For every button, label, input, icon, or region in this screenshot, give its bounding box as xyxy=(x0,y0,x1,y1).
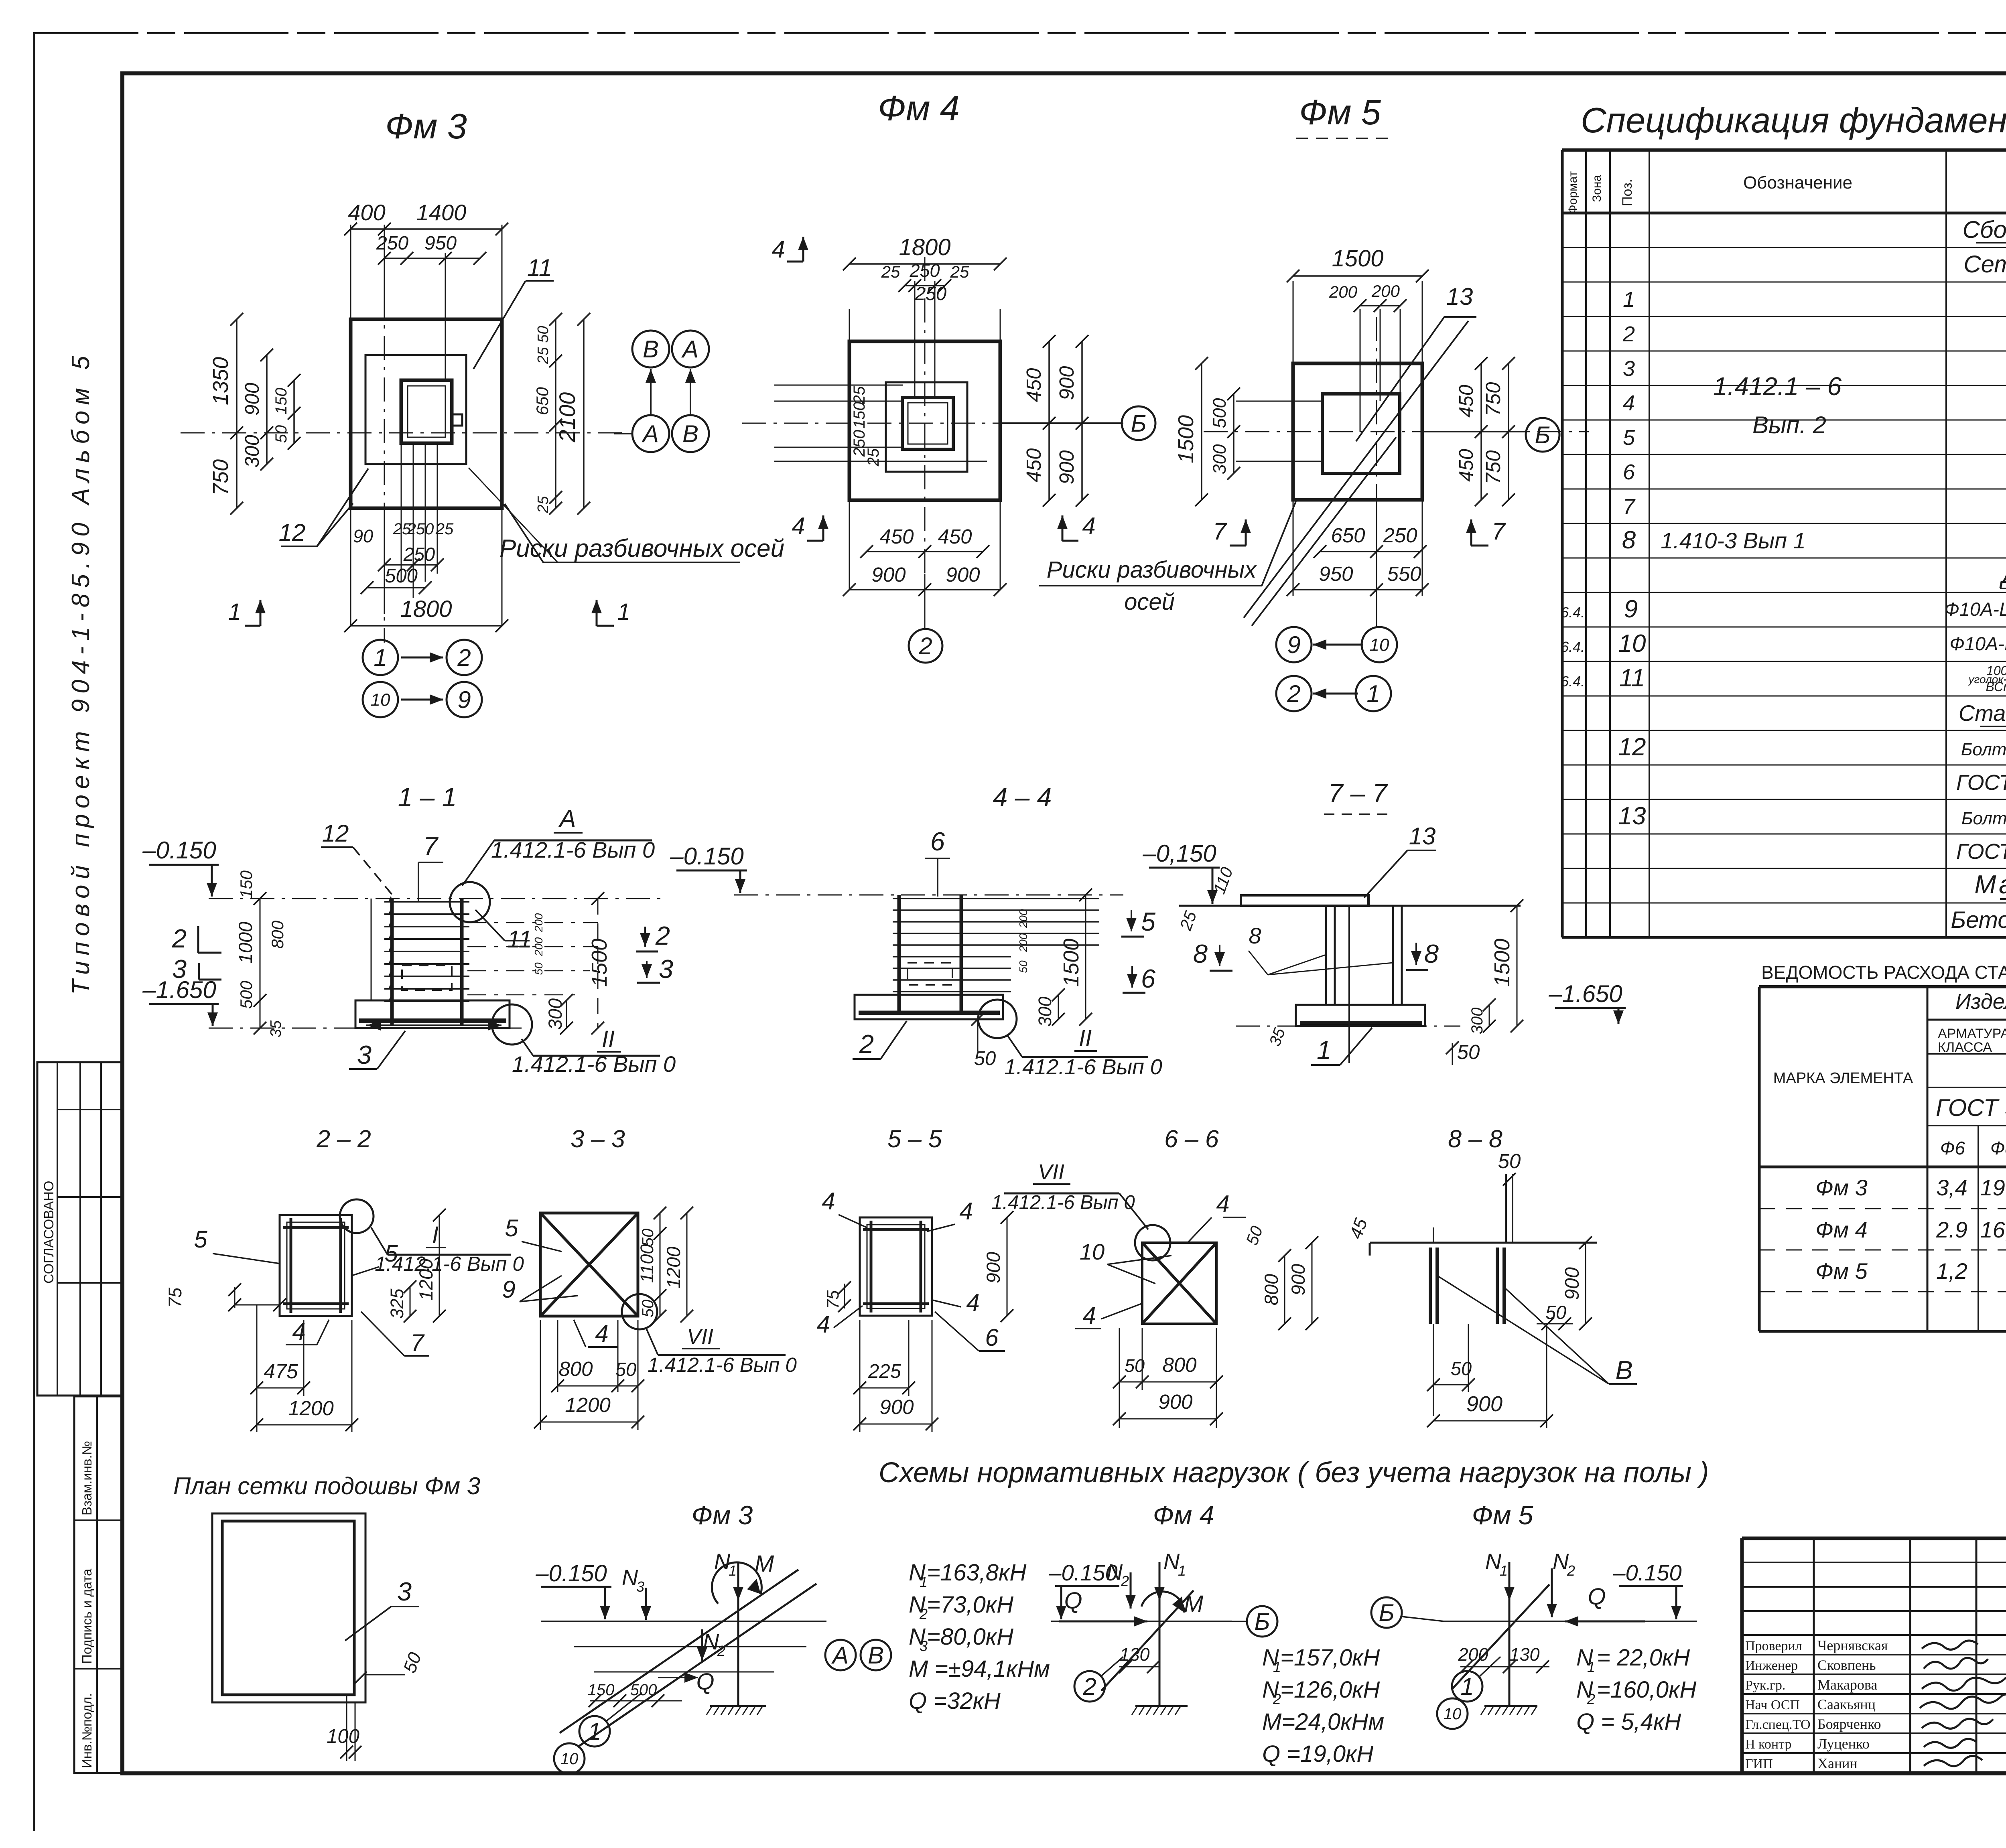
svg-text:2: 2 xyxy=(1121,1573,1129,1589)
Fm5 top dims 200 200 xyxy=(1360,305,1400,306)
svg-text:1500: 1500 xyxy=(1332,245,1383,272)
Fm4 pedestal outline xyxy=(886,382,967,472)
svg-text:Q =19,0кН: Q =19,0кН xyxy=(1262,1741,1373,1767)
section 4-4 dashed anchor box xyxy=(908,963,952,985)
svg-text:50: 50 xyxy=(1498,1150,1521,1172)
svg-text:1: 1 xyxy=(588,1718,601,1745)
svg-text:650: 650 xyxy=(1331,524,1365,547)
scheme Fm5 ground line xyxy=(1444,1621,1697,1622)
svg-text:1: 1 xyxy=(228,599,241,625)
svg-text:8: 8 xyxy=(1193,939,1208,968)
Fm5 right dims 750 750 xyxy=(1508,363,1509,500)
svg-text:3 – 3: 3 – 3 xyxy=(571,1125,625,1152)
svg-text:200: 200 xyxy=(1017,933,1029,952)
svg-text:4: 4 xyxy=(1216,1191,1229,1217)
section 8-8 top line xyxy=(1370,1242,1597,1244)
svg-text:300: 300 xyxy=(1209,444,1230,474)
svg-text:Схемы нормативных нагрузо: Схемы нормативных нагрузок ( без учета н… xyxy=(879,1457,1709,1489)
section 1-1 footing xyxy=(355,1000,510,1028)
svg-text:50: 50 xyxy=(1017,960,1029,973)
svg-text:В: В xyxy=(643,336,659,363)
title block signatures squiggles xyxy=(1922,1641,1978,1649)
scheme Fm5 vertical axis and support xyxy=(1509,1564,1511,1705)
svg-text:1: 1 xyxy=(729,1562,737,1579)
svg-text:7 – 7: 7 – 7 xyxy=(1328,778,1388,808)
svg-text:Взам.инв.№: Взам.инв.№ xyxy=(79,1441,94,1515)
svg-text:1: 1 xyxy=(1623,288,1635,312)
svg-text:1.410-3 Вып 1: 1.410-3 Вып 1 xyxy=(1661,528,1806,553)
svg-text:А: А xyxy=(642,420,659,447)
Fm3 section cut 1 right xyxy=(596,600,598,626)
section 3-3 square with cross xyxy=(540,1213,638,1316)
svg-text:1200: 1200 xyxy=(663,1247,684,1289)
svg-text:1.412.1-6 Вып 0: 1.412.1-6 Вып 0 xyxy=(648,1353,797,1376)
svg-text:N: N xyxy=(703,1629,719,1654)
Fm3 left dim 900 300 xyxy=(266,355,268,464)
Fm4 bottom dim 900 900 xyxy=(849,589,1000,590)
svg-text:–0.150: –0.150 xyxy=(535,1560,607,1586)
svg-text:3: 3 xyxy=(636,1578,644,1595)
mesh plan dims xyxy=(346,1695,347,1761)
svg-text:900: 900 xyxy=(1561,1267,1583,1300)
svg-text:Стандартные изделия: Стандартные изделия xyxy=(1959,700,2006,726)
scheme Fm4 axis circle B xyxy=(1247,1606,1277,1637)
section 8-8 top stub dim 50 xyxy=(1505,1174,1507,1243)
svg-text:6: 6 xyxy=(930,827,945,856)
svg-text:25: 25 xyxy=(535,496,552,513)
svg-text:11: 11 xyxy=(1619,664,1645,692)
svg-text:Риски разбивочных осей: Риски разбивочных осей xyxy=(499,535,784,562)
Fm4 section cut 4 marks xyxy=(822,515,824,541)
svg-text:2: 2 xyxy=(172,924,187,953)
svg-text:50: 50 xyxy=(1457,1041,1480,1063)
svg-text:ГОСТ 24379.1-80: ГОСТ 24379.1-80 xyxy=(1956,840,2006,864)
svg-text:900: 900 xyxy=(983,1252,1004,1283)
Fm5 mark circles 2-1 xyxy=(1276,676,1312,711)
svg-text:550: 550 xyxy=(1387,562,1421,585)
svg-text:2: 2 xyxy=(1082,1673,1096,1700)
svg-text:900: 900 xyxy=(946,563,980,586)
svg-text:Ханин: Ханин xyxy=(1817,1755,1858,1771)
svg-text:VII: VII xyxy=(687,1325,713,1349)
svg-text:130: 130 xyxy=(1119,1644,1149,1665)
svg-text:4: 4 xyxy=(1082,513,1095,540)
svg-text:1350: 1350 xyxy=(209,357,233,405)
svg-text:осей: осей xyxy=(1124,589,1175,615)
section 2-2 mesh square xyxy=(280,1215,352,1316)
svg-text:Ф8: Ф8 xyxy=(1990,1138,2006,1158)
svg-text:=157,0кН: =157,0кН xyxy=(1280,1645,1380,1671)
svg-text:ГОСТ 24379.1-80: ГОСТ 24379.1-80 xyxy=(1956,771,2006,795)
Fm4 anchor block xyxy=(902,398,953,449)
svg-text:450: 450 xyxy=(1022,368,1045,402)
svg-text:9: 9 xyxy=(502,1276,515,1303)
scheme Fm4 force N2 xyxy=(1130,1572,1132,1609)
section 1-1 detail circle top xyxy=(450,882,490,922)
svg-text:8: 8 xyxy=(1424,939,1439,968)
svg-text:= 22,0кН: = 22,0кН xyxy=(1597,1645,1690,1671)
svg-text:950: 950 xyxy=(424,233,457,254)
svg-text:2: 2 xyxy=(859,1029,874,1059)
svg-text:2: 2 xyxy=(1273,1691,1281,1707)
svg-text:900: 900 xyxy=(1055,450,1078,484)
svg-text:1: 1 xyxy=(374,644,387,671)
Fm3 anchor block xyxy=(401,380,452,443)
svg-text:уголок: уголок xyxy=(1967,673,2004,686)
Fm4 top dim 1800 xyxy=(849,263,1000,265)
svg-text:Проверил: Проверил xyxy=(1745,1639,1802,1653)
svg-text:50: 50 xyxy=(1545,1302,1566,1323)
svg-text:Боярченко: Боярченко xyxy=(1817,1716,1881,1732)
section 5-5 mesh square xyxy=(860,1217,932,1316)
svg-text:650: 650 xyxy=(533,387,552,415)
section 7-7 anchor bolts xyxy=(1325,906,1327,1005)
section 1-1 column bars xyxy=(390,899,394,1025)
svg-text:=163,8кН: =163,8кН xyxy=(927,1560,1026,1586)
svg-text:2100: 2100 xyxy=(554,392,580,443)
svg-text:50: 50 xyxy=(272,425,290,443)
svg-text:Материалы: Материалы xyxy=(1974,870,2006,899)
Fm4 bottom axis circle 2 xyxy=(924,574,926,629)
svg-text:450: 450 xyxy=(1456,449,1477,482)
svg-text:2: 2 xyxy=(655,921,670,950)
svg-text:250: 250 xyxy=(1383,524,1417,547)
Fm3 top dim 400 1400 xyxy=(351,228,502,230)
Fm5 right dims 450 450 xyxy=(1480,363,1482,500)
svg-text:Подпись и дата: Подпись и дата xyxy=(79,1568,94,1664)
svg-text:25: 25 xyxy=(865,448,882,467)
svg-text:1.412.1-6 Вып 0: 1.412.1-6 Вып 0 xyxy=(491,837,655,862)
svg-text:3: 3 xyxy=(1623,357,1635,381)
svg-text:900: 900 xyxy=(242,383,263,416)
svg-text:4: 4 xyxy=(1082,1302,1096,1329)
svg-text:150: 150 xyxy=(588,1681,615,1699)
svg-text:225: 225 xyxy=(868,1361,901,1382)
svg-text:2: 2 xyxy=(457,644,471,671)
svg-text:750: 750 xyxy=(1482,450,1504,484)
svg-text:II: II xyxy=(602,1026,615,1052)
svg-text:7: 7 xyxy=(423,832,439,861)
svg-text:–0,150: –0,150 xyxy=(1142,840,1216,867)
svg-text:1500: 1500 xyxy=(1059,939,1083,987)
svg-text:5: 5 xyxy=(1623,426,1635,450)
svg-text:N: N xyxy=(622,1565,638,1590)
svg-text:Сборочные единицы: Сборочные единицы xyxy=(1963,216,2006,243)
svg-text:5 – 5: 5 – 5 xyxy=(887,1125,942,1152)
svg-text:1: 1 xyxy=(1587,1659,1595,1675)
Fm3 axis centerline vertical xyxy=(384,294,385,643)
svg-text:2: 2 xyxy=(918,633,932,659)
svg-text:N: N xyxy=(714,1549,731,1574)
svg-text:=73,0кН: =73,0кН xyxy=(927,1592,1013,1618)
svg-text:АРМАТУРА: АРМАТУРА xyxy=(1938,1026,2006,1041)
svg-text:M: M xyxy=(1184,1591,1204,1617)
svg-text:900: 900 xyxy=(1055,366,1078,400)
scheme Fm3 inclined column xyxy=(578,1584,816,1747)
svg-text:950: 950 xyxy=(1319,562,1353,585)
svg-text:Болт 1.1 М24х800 ВСт3сп2: Болт 1.1 М24х800 ВСт3сп2 xyxy=(1961,740,2006,759)
mesh plan rect xyxy=(212,1513,365,1702)
scheme Fm5 circles 1 10 xyxy=(1452,1671,1482,1702)
svg-text:1500: 1500 xyxy=(587,939,611,987)
title block signature grid xyxy=(1813,1538,1815,1773)
svg-text:Макарова: Макарова xyxy=(1817,1677,1877,1693)
svg-text:КЛАССА: КЛАССА xyxy=(1938,1040,1992,1055)
Fm3 left dim 1350 750 xyxy=(236,319,238,508)
Fm3 outer footing outline xyxy=(351,319,502,508)
steel table grid xyxy=(1759,985,2006,988)
svg-text:Фм 5: Фм 5 xyxy=(1815,1258,1868,1284)
Fm3 mark circles 10-9 xyxy=(363,682,398,717)
Fm5 top dim 1500 xyxy=(1293,275,1422,277)
svg-text:4: 4 xyxy=(595,1320,608,1347)
section 1-1 detail circle bottom xyxy=(492,1004,532,1045)
outer trim border left xyxy=(33,32,35,1831)
svg-text:6.4.: 6.4. xyxy=(1561,639,1585,655)
section 1-1 right dims xyxy=(597,899,599,1028)
svg-text:10: 10 xyxy=(1444,1705,1462,1723)
svg-text:4: 4 xyxy=(792,513,805,540)
svg-text:13: 13 xyxy=(1409,823,1436,850)
svg-text:1: 1 xyxy=(1460,1673,1474,1700)
svg-text:8: 8 xyxy=(1622,526,1636,554)
svg-text:1: 1 xyxy=(1366,680,1380,707)
scheme Fm3 force N2 xyxy=(701,1629,703,1661)
svg-text:3: 3 xyxy=(659,954,673,984)
svg-text:5: 5 xyxy=(505,1215,518,1241)
svg-text:5: 5 xyxy=(384,1240,398,1267)
Fm5 centerlines xyxy=(1376,317,1377,626)
svg-text:4: 4 xyxy=(822,1188,835,1215)
svg-text:Болт 1.1 М24х7,6 ВСт3сп2: Болт 1.1 М24х7,6 ВСт3сп2 xyxy=(1961,809,2006,828)
section cut 4 upper right (left of Fm4) xyxy=(802,237,804,262)
svg-text:Ф10А-Ш ГОСТ5781-82 ℓ=180: Ф10А-Ш ГОСТ5781-82 ℓ=180 xyxy=(1949,633,2006,654)
svg-text:250: 250 xyxy=(909,260,940,281)
svg-text:500: 500 xyxy=(385,565,418,587)
Fm5 outer footing outline xyxy=(1293,363,1422,500)
svg-text:N: N xyxy=(1163,1549,1180,1574)
svg-text:2: 2 xyxy=(1287,680,1300,707)
Fm3 right dim 2100 xyxy=(583,319,585,508)
svg-text:9: 9 xyxy=(457,686,471,713)
scheme Fm5 inclined line xyxy=(1452,1584,1549,1689)
svg-text:1.412.1-6 Вып 0: 1.412.1-6 Вып 0 xyxy=(512,1051,676,1077)
svg-text:250: 250 xyxy=(407,520,434,538)
svg-text:150: 150 xyxy=(237,870,256,899)
svg-text:Рук.гр.: Рук.гр. xyxy=(1745,1678,1785,1693)
svg-text:Фм 3: Фм 3 xyxy=(1815,1175,1868,1200)
svg-text:=126,0кН: =126,0кН xyxy=(1280,1677,1380,1703)
section 4-4 top level line xyxy=(734,895,1123,896)
Fm3 bottom dim 1800 xyxy=(351,625,502,627)
svg-text:1400: 1400 xyxy=(416,200,467,225)
scheme Fm3 circles A B xyxy=(825,1640,856,1670)
svg-text:M =±94,1кНм: M =±94,1кНм xyxy=(909,1656,1050,1682)
section 4-4 footing xyxy=(855,995,1003,1019)
svg-text:Спецификация фундаментов Фм3: Спецификация фундаментов Фм3 – Фм5 xyxy=(1581,100,2006,140)
svg-text:250: 250 xyxy=(376,233,408,254)
svg-text:13: 13 xyxy=(1618,802,1646,830)
svg-text:2 – 2: 2 – 2 xyxy=(316,1125,371,1152)
scheme Fm5 force N2 xyxy=(1551,1568,1553,1617)
svg-text:1 – 1: 1 – 1 xyxy=(398,782,457,812)
svg-text:900: 900 xyxy=(1158,1390,1192,1413)
scheme Fm4 vertical axis and support xyxy=(1159,1564,1161,1705)
svg-text:1500: 1500 xyxy=(1490,939,1514,987)
svg-text:6: 6 xyxy=(1141,964,1156,993)
section 8-8 bars xyxy=(1429,1248,1432,1324)
section 7-7 base plate xyxy=(1241,895,1368,906)
svg-text:ГИП: ГИП xyxy=(1745,1757,1773,1771)
svg-text:M: M xyxy=(755,1551,774,1577)
svg-text:Б: Б xyxy=(1131,410,1146,437)
svg-text:7: 7 xyxy=(410,1329,425,1356)
Fm3 pedestal outline xyxy=(365,355,466,464)
svg-text:12: 12 xyxy=(1618,733,1646,761)
svg-text:2: 2 xyxy=(1567,1562,1575,1579)
section 1-1 left dims xyxy=(260,899,261,1028)
svg-text:В: В xyxy=(1615,1355,1632,1385)
section 7-7 footing xyxy=(1296,1005,1425,1026)
svg-text:Б: Б xyxy=(1535,422,1550,448)
section 1-1 dashed construction lines right xyxy=(467,922,598,923)
svg-text:Сетки арматурные: Сетки арматурные xyxy=(1963,251,2006,278)
svg-text:500: 500 xyxy=(237,980,256,1009)
svg-text:100: 100 xyxy=(327,1726,359,1747)
svg-text:50: 50 xyxy=(639,1229,657,1247)
svg-text:90: 90 xyxy=(353,526,373,546)
svg-text:План сетки подошвы Фм 3: План сетки подошвы Фм 3 xyxy=(173,1473,480,1499)
svg-text:–0.150: –0.150 xyxy=(1612,1560,1681,1585)
svg-text:1.412.1-6 Вып 0: 1.412.1-6 Вып 0 xyxy=(991,1192,1135,1213)
Fm3 extension lines top xyxy=(350,225,351,321)
Fm3 left small dims 150 50 xyxy=(293,380,295,443)
svg-text:Фм 4: Фм 4 xyxy=(1815,1217,1868,1242)
svg-text:1500: 1500 xyxy=(1174,415,1198,463)
section 6-6 square with cross xyxy=(1142,1243,1216,1324)
svg-text:200: 200 xyxy=(1371,282,1400,300)
Fm4 right dim 900 900 xyxy=(1081,341,1083,500)
svg-text:4: 4 xyxy=(959,1198,973,1225)
svg-text:300: 300 xyxy=(1035,996,1055,1026)
Fm4 bottom dim 450 450 xyxy=(867,551,983,552)
scheme Fm3 force N3 xyxy=(645,1588,647,1620)
svg-text:150: 150 xyxy=(272,388,290,415)
svg-text:Фм 5: Фм 5 xyxy=(1299,92,1381,132)
Fm3 top dim 250 950 xyxy=(384,258,480,259)
svg-text:1: 1 xyxy=(1178,1562,1186,1579)
svg-text:А: А xyxy=(681,336,698,363)
Fm4 outer footing outline xyxy=(849,341,1000,500)
svg-text:10: 10 xyxy=(1080,1239,1105,1264)
svg-text:Инв.№подл.: Инв.№подл. xyxy=(79,1693,94,1768)
svg-text:6 – 6: 6 – 6 xyxy=(1164,1125,1219,1152)
svg-text:Бетон класса В 15: Бетон класса В 15 xyxy=(1951,907,2006,933)
Fm5 bottom dims 650 250 xyxy=(1320,551,1420,552)
svg-text:4: 4 xyxy=(816,1311,830,1338)
svg-text:800: 800 xyxy=(1261,1274,1282,1305)
scheme Fm4 moment M xyxy=(1141,1592,1184,1613)
Fm4 axis extension lines xyxy=(849,309,850,343)
svg-text:А: А xyxy=(558,805,576,833)
svg-text:500: 500 xyxy=(1209,398,1230,428)
svg-text:2: 2 xyxy=(1622,322,1635,346)
section 3-3 detail circle xyxy=(622,1294,657,1329)
svg-text:2: 2 xyxy=(1587,1691,1595,1707)
svg-text:1100: 1100 xyxy=(637,1244,657,1283)
svg-text:Нач ОСП: Нач ОСП xyxy=(1745,1698,1800,1712)
Fm5 bottom dims 950 550 xyxy=(1293,589,1422,590)
svg-text:900: 900 xyxy=(1466,1392,1502,1416)
svg-text:Ф6: Ф6 xyxy=(1940,1138,1965,1158)
svg-text:250: 250 xyxy=(915,283,946,304)
Fm4 top dims 25 250 25 / 250 xyxy=(905,285,945,286)
Fm5 section cut 7 marks xyxy=(1245,519,1247,546)
svg-text:1: 1 xyxy=(1317,1035,1331,1065)
svg-text:Сковпень: Сковпень xyxy=(1817,1657,1876,1673)
svg-text:II: II xyxy=(1079,1025,1092,1051)
svg-text:I: I xyxy=(432,1222,439,1248)
svg-text:Луценко: Луценко xyxy=(1817,1736,1870,1752)
Fm5 pedestal outline xyxy=(1322,394,1400,473)
svg-text:1200: 1200 xyxy=(288,1397,333,1420)
svg-text:11: 11 xyxy=(507,926,532,953)
svg-text:19.2: 19.2 xyxy=(1980,1175,2006,1200)
svg-text:9: 9 xyxy=(1287,631,1300,658)
scheme Fm5 force N1 xyxy=(1509,1562,1511,1601)
svg-text:1.412.1-6 Вып 0: 1.412.1-6 Вып 0 xyxy=(1004,1055,1162,1079)
section 1-1 extension line xyxy=(371,899,372,1000)
section 1-1 dashed anchor box xyxy=(402,966,452,990)
svg-text:8: 8 xyxy=(1249,923,1261,948)
outer trim border top xyxy=(34,32,2006,34)
Fm5 axis circle B xyxy=(1422,431,1526,432)
Fm3 axis centerline horizontal xyxy=(181,432,626,434)
svg-text:200: 200 xyxy=(1329,282,1358,301)
svg-text:6.4.: 6.4. xyxy=(1561,673,1585,690)
svg-text:3,4: 3,4 xyxy=(1936,1175,1967,1200)
svg-text:10: 10 xyxy=(371,690,390,710)
svg-text:1: 1 xyxy=(1500,1562,1508,1579)
svg-text:3: 3 xyxy=(357,1040,372,1069)
svg-text:25: 25 xyxy=(435,520,454,538)
Fm5 extension lines xyxy=(1293,281,1294,365)
svg-text:Q: Q xyxy=(1064,1588,1082,1614)
svg-text:СОГЛАСОВАНО: СОГЛАСОВАНО xyxy=(41,1181,57,1284)
svg-text:50: 50 xyxy=(974,1048,996,1069)
svg-text:В: В xyxy=(682,420,698,447)
svg-text:Инженер: Инженер xyxy=(1745,1658,1798,1673)
svg-text:Фм 3: Фм 3 xyxy=(692,1500,753,1530)
svg-text:450: 450 xyxy=(1022,448,1045,482)
scheme Fm4 circle 2 xyxy=(1074,1671,1105,1702)
svg-text:N: N xyxy=(1485,1549,1502,1574)
svg-text:250: 250 xyxy=(403,544,435,565)
svg-text:800: 800 xyxy=(558,1357,593,1380)
svg-text:4: 4 xyxy=(1623,391,1635,415)
svg-text:150: 150 xyxy=(851,402,868,429)
svg-text:Зона: Зона xyxy=(1590,175,1604,202)
Fm4 centerlines xyxy=(924,257,926,574)
svg-text:4: 4 xyxy=(772,236,785,263)
Fm5 left dim 1500 xyxy=(1201,363,1202,500)
section 6-6 detail circle xyxy=(1135,1225,1170,1260)
svg-text:6: 6 xyxy=(985,1324,999,1351)
svg-text:5: 5 xyxy=(1141,907,1156,936)
svg-text:Б: Б xyxy=(1379,1599,1394,1626)
svg-text:В: В xyxy=(868,1642,884,1669)
scheme Fm5 axis circle B xyxy=(1371,1597,1402,1628)
